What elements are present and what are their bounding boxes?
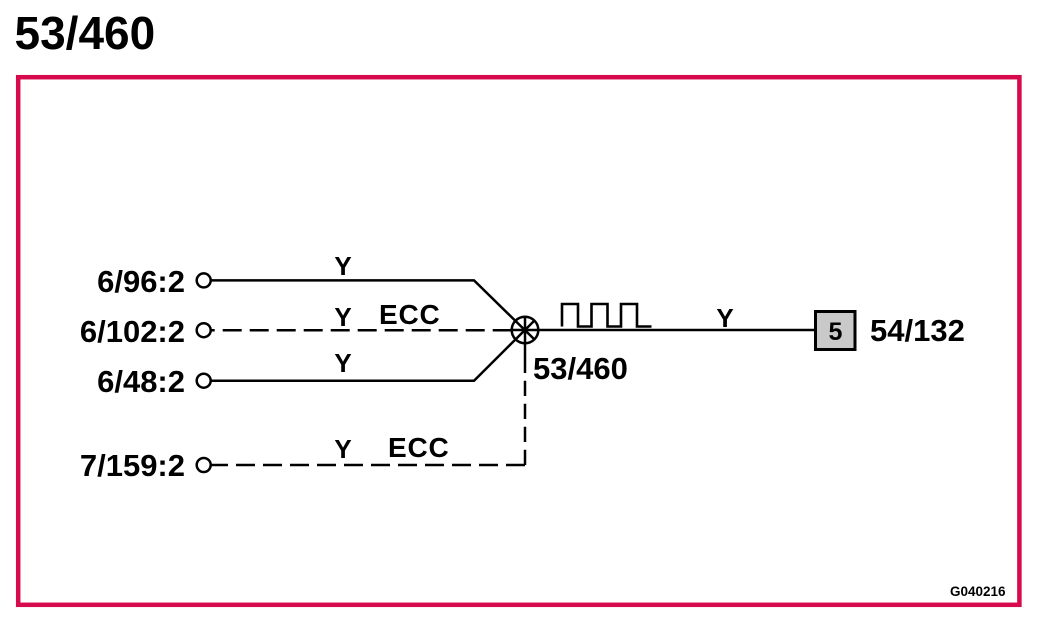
- svg-text:53/460: 53/460: [533, 351, 628, 386]
- svg-text:Y: Y: [334, 302, 351, 332]
- svg-text:Y: Y: [334, 251, 351, 281]
- component 54/132 pin box: [816, 312, 856, 350]
- svg-text:Y: Y: [716, 303, 733, 333]
- wire 6/102:2 to splice, dashed (Y ECC): [211, 329, 512, 332]
- wire 7/159:2 vertical riser to splice, dashed: [524, 359, 527, 465]
- wire 7/159:2 horizontal, dashed (Y ECC): [211, 464, 525, 467]
- svg-text:ECC: ECC: [388, 432, 450, 463]
- pulse signal symbol: [562, 304, 652, 327]
- svg-text:6/48:2: 6/48:2: [97, 364, 185, 399]
- svg-text:6/102:2: 6/102:2: [80, 314, 185, 349]
- svg-text:Y: Y: [334, 434, 351, 464]
- connector 6/48:2 terminal circle: [197, 374, 211, 388]
- svg-text:53/460: 53/460: [15, 7, 156, 59]
- svg-text:5: 5: [829, 318, 843, 346]
- connector 6/102:2 terminal circle: [197, 323, 211, 337]
- splice node 53/460 circle: [512, 317, 539, 344]
- svg-text:ECC: ECC: [379, 299, 441, 330]
- svg-text:Y: Y: [334, 348, 351, 378]
- svg-text:6/96:2: 6/96:2: [97, 264, 185, 299]
- connector 7/159:2 terminal circle: [197, 458, 211, 472]
- svg-text:G040216: G040216: [950, 584, 1006, 599]
- wire splice to 54/132 (Y): [510, 329, 814, 332]
- splice vertical spoke: [524, 316, 527, 359]
- wire 6/48:2 to splice (Y): [211, 321, 535, 381]
- connector 6/96:2 terminal circle: [197, 273, 211, 287]
- wire 6/96:2 to splice (Y): [211, 280, 535, 339]
- svg-text:54/132: 54/132: [870, 313, 965, 348]
- svg-text:7/159:2: 7/159:2: [80, 448, 185, 483]
